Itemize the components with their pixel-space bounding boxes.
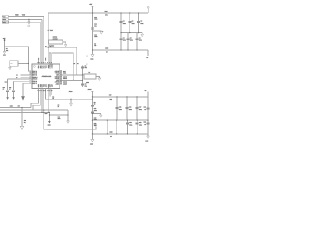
capacitor C2 [128, 21, 131, 22]
svg-text:C3: C3 [140, 21, 142, 23]
svg-text:C14: C14 [94, 34, 97, 36]
svg-text:C22: C22 [94, 123, 97, 125]
svg-text:5V0: 5V0 [110, 99, 113, 101]
ground stub button [9, 66, 11, 67]
svg-text:ADC2: ADC2 [63, 75, 67, 78]
svg-text:GND: GND [105, 48, 108, 50]
svg-text:RXD: RXD [3, 19, 6, 21]
svg-text:AVCC: AVCC [69, 91, 73, 93]
ground arrow drop [20, 126, 24, 129]
svg-text:10u: 10u [94, 25, 96, 27]
capacitor column 1 [120, 13, 122, 33]
capacitor C9 plates [81, 84, 84, 85]
ground arrow below R1 [3, 51, 6, 53]
svg-text:ADC0: ADC0 [63, 81, 67, 84]
junction rail B col d [107, 120, 108, 121]
svg-text:n1: n1 [144, 109, 146, 111]
wire pin 13 long [46, 92, 93, 100]
wire RXD [9, 16, 44, 18]
capacitor column e [116, 120, 118, 134]
ground arrow Cb [12, 97, 15, 100]
net labels right of right pins [63, 70, 67, 86]
svg-text:0V: 0V [106, 52, 108, 54]
ground arrow resonator [64, 45, 67, 47]
svg-text:22p: 22p [85, 85, 87, 87]
ground stub below rail C [147, 134, 149, 136]
junction crystal bottom [82, 80, 83, 81]
svg-text:C6: C6 [139, 37, 141, 39]
junction flag [92, 12, 93, 13]
wire DTR [9, 21, 41, 23]
junction rail C col e [116, 133, 117, 134]
svg-text:Y1: Y1 [88, 71, 90, 74]
ground arrow AVCC column [91, 139, 94, 142]
+5V flag bar [91, 5, 93, 7]
pin names inside top edge (rotated) [37, 64, 53, 68]
capacitor column right edge [147, 97, 149, 134]
ground arrow 3 [21, 96, 25, 100]
wire XTAL2 loop [52, 53, 74, 81]
capacitor C23 plates [147, 108, 150, 109]
svg-text:GND: GND [109, 131, 113, 134]
svg-text:GND: GND [90, 144, 93, 146]
resonator ground lead [63, 42, 66, 44]
junction rail2 C2 [129, 32, 130, 33]
svg-text:GN: GN [94, 125, 96, 127]
resonator Y2 body [49, 40, 63, 44]
svg-text:GND: GND [145, 141, 148, 143]
junction gnd rail C6 [136, 49, 137, 50]
wire pin 14 drop [47, 92, 49, 113]
junction rail A C16 [126, 96, 127, 97]
wire pin 11 to rail [41, 92, 43, 113]
junction rail B C20 [137, 120, 138, 121]
svg-text:100n: 100n [119, 109, 122, 111]
junction ground hang [70, 99, 71, 100]
svg-text:C18: C18 [94, 118, 97, 120]
pin names inside bottom edge (rotated) [37, 83, 53, 88]
junction riser xtal loop [48, 47, 49, 48]
wire AVCC column [91, 91, 93, 139]
svg-text:C20: C20 [139, 122, 142, 124]
junction ferrite stub [92, 113, 93, 114]
junction right edge rail B [147, 120, 148, 121]
wire pin 16 stub [51, 92, 53, 96]
capacitor plates 2 on AVCC column [91, 112, 94, 113]
capacitor C15 [116, 107, 119, 108]
net stub right [147, 50, 149, 56]
capacitor column 3 [138, 13, 140, 33]
junction rail1 C2 [129, 12, 130, 13]
wire bottom rail [44, 127, 96, 130]
svg-text:100n: 100n [139, 124, 142, 126]
svg-text:GND: GND [10, 106, 13, 108]
capacitor C17 [136, 107, 139, 108]
wire pin 10 stair [33, 92, 40, 111]
svg-text:R5: R5 [58, 104, 60, 106]
svg-text:DTR: DTR [3, 22, 6, 24]
connector J1 pin box RXD [3, 19, 9, 21]
capacitor C8 plates [81, 67, 84, 68]
capacitor C1 [120, 21, 123, 22]
IC right pin stubs [60, 70, 63, 72]
wire reset pullup [4, 41, 6, 52]
ground arrow mid [48, 121, 51, 123]
svg-text:+: + [87, 55, 88, 57]
label J1 pin names [3, 16, 6, 24]
IC top pin stubs [37, 61, 39, 64]
ground stub mid [48, 112, 50, 121]
svg-text:100n: 100n [129, 109, 132, 111]
svg-text:100n: 100n [130, 40, 133, 42]
wire XTAL2 under crystal [62, 79, 82, 81]
stub pin15 top [49, 53, 51, 64]
svg-text:GND: GND [3, 55, 6, 57]
left pin numbers [30, 70, 31, 84]
svg-text:VC: VC [146, 57, 148, 59]
net stub up right [147, 92, 149, 97]
IC U1 body [32, 64, 60, 89]
svg-text:PB7 7: PB7 7 [32, 82, 37, 85]
junction rail C C20 [137, 133, 138, 134]
junction pin14 rail3 [48, 112, 49, 113]
svg-text:100n: 100n [129, 124, 132, 126]
svg-text:22p: 22p [85, 67, 87, 69]
ground arrow mid rail [141, 34, 144, 37]
ground arrow at connector [28, 22, 31, 24]
wire pin 12 drop [43, 92, 45, 130]
wire rail C [92, 133, 148, 135]
capacitor plates on AVCC column [91, 106, 94, 107]
svg-text:PD2: PD2 [37, 65, 40, 68]
capacitor column a [116, 97, 118, 120]
svg-text:100n: 100n [140, 23, 143, 25]
svg-text:C12: C12 [94, 24, 97, 26]
svg-text:C19: C19 [129, 122, 132, 124]
capacitor column g [136, 120, 138, 134]
ground arrow x68 [67, 121, 70, 123]
wire rail 5V [0, 109, 68, 111]
junction TXD/GND [28, 19, 29, 20]
svg-text:n1: n1 [144, 124, 146, 126]
svg-text:SCL: SCL [63, 70, 66, 73]
capacitor column c [136, 97, 138, 120]
ground arrow bottom filter [91, 54, 94, 57]
svg-text:C1: C1 [123, 21, 125, 23]
capacitor column 2 [129, 13, 131, 33]
svg-text:GND: GND [45, 113, 48, 115]
junction VCC riser [48, 30, 49, 31]
svg-text:C17: C17 [139, 107, 142, 109]
svg-text:GND: GND [48, 124, 51, 126]
wire bus vertical 3 [39, 22, 41, 64]
svg-text:5V0: 5V0 [105, 14, 108, 16]
svg-text:10: 10 [94, 104, 96, 106]
svg-text:GND: GND [27, 26, 30, 28]
svg-text:GND: GND [47, 64, 50, 68]
capacitor C3 [137, 21, 140, 22]
wire bus vertical 1 [43, 17, 45, 64]
svg-text:100n: 100n [94, 36, 97, 38]
junction ground drop [21, 107, 22, 108]
svg-text:C16: C16 [129, 107, 132, 109]
wire pin3 left [21, 74, 30, 76]
stub pin top 2 [45, 58, 47, 62]
svg-text:C8: C8 [85, 66, 87, 68]
svg-text:16MHz: 16MHz [53, 36, 58, 39]
svg-text:100n: 100n [132, 23, 135, 25]
junction rail1 C1 [120, 12, 121, 13]
svg-text:VC: VC [145, 90, 147, 92]
junction XTAL2 [73, 80, 74, 81]
capacitor column 4 [120, 33, 122, 50]
ground arrow ferrite stub [100, 115, 103, 117]
svg-text:100n: 100n [58, 118, 61, 120]
svg-text:C15: C15 [119, 107, 122, 109]
wire rail 3 [0, 111, 49, 113]
svg-text:100n: 100n [139, 109, 142, 111]
pin number labels bottom [38, 90, 53, 92]
svg-text:TXD: TXD [22, 13, 26, 16]
svg-text:+5V: +5V [17, 106, 19, 108]
capacitor column f [126, 120, 128, 134]
ground arrow right down [147, 136, 150, 138]
svg-text:GN: GN [24, 120, 26, 122]
IC bottom pin stubs [37, 89, 39, 92]
wire crystal to ground [96, 76, 99, 78]
svg-text:X2: X2 [74, 63, 76, 65]
junction rail1 C3 [138, 12, 139, 13]
ferrite stub [92, 114, 100, 116]
junction rail A C15 [116, 96, 117, 97]
svg-text:D1: D1 [24, 122, 26, 124]
IC left pin stubs [30, 70, 33, 72]
svg-text:AVCC: AVCC [88, 88, 93, 91]
pin 1 indicator [34, 66, 36, 68]
junction XTAL1 [76, 74, 77, 75]
capacitor C4 [120, 38, 123, 39]
junction button reset [28, 63, 29, 64]
button SW1 body [10, 61, 18, 67]
connector J1 pin box DTR [3, 21, 9, 23]
pin number labels top [38, 62, 52, 64]
cap drop 1 [7, 79, 9, 97]
junction stub rail3 [49, 112, 50, 113]
svg-text:C24: C24 [143, 122, 146, 124]
IC right pin names [55, 70, 60, 86]
right pin numbers [60, 70, 62, 85]
junction pin11 rail3 [41, 112, 42, 113]
wire pin left 3 [23, 82, 30, 84]
svg-text:C4: C4 [123, 37, 125, 39]
svg-text:GND: GND [37, 83, 40, 87]
junction mid gnd link right [67, 114, 68, 115]
svg-text:TXD: TXD [3, 16, 6, 18]
junction stub pin15 [49, 52, 50, 53]
wire VCC pin left [8, 78, 30, 80]
svg-text:+: + [87, 63, 88, 65]
svg-text:GND: GND [90, 58, 93, 60]
ground stub filter [93, 30, 102, 33]
junction rail A left [92, 96, 93, 97]
wire +5V flag drop [92, 6, 94, 13]
junction rail B left [92, 120, 93, 121]
wire XTAL1 to crystal [62, 74, 84, 76]
svg-text:1 ADC: 1 ADC [47, 83, 50, 88]
gnd drop 3 [22, 83, 24, 96]
wire XTAL1 loop [48, 47, 77, 75]
capacitor C16 [126, 107, 129, 108]
wire button to reset [18, 63, 28, 65]
net labels above top pins (rotated) [38, 58, 47, 61]
svg-text:C23: C23 [143, 107, 146, 109]
svg-text:100n: 100n [139, 40, 142, 42]
wire pin4 left [21, 76, 30, 78]
cap drop 2 [13, 81, 15, 97]
svg-text:100n: 100n [123, 40, 126, 42]
ground arrow hang [70, 103, 73, 106]
svg-text:D+: D+ [16, 75, 18, 77]
wire VCC filter column [92, 13, 94, 54]
IC left pin names [32, 70, 37, 85]
capacitor Cb plates [12, 90, 15, 91]
svg-text:16M: 16M [86, 81, 90, 84]
cap leg vertical [81, 66, 83, 88]
capacitor C20 [136, 123, 139, 124]
junction rail C left [92, 133, 93, 134]
ground arrow filter [100, 32, 103, 34]
svg-text:100n: 100n [94, 110, 97, 112]
junction rail A C17 [136, 96, 137, 97]
connector J1 pin box TXD [3, 16, 9, 18]
svg-text:D-: D- [16, 77, 18, 79]
wire mid rail [121, 32, 142, 34]
gnd drop x68 [67, 110, 69, 121]
capacitor column b [126, 97, 128, 120]
capacitor C5 [127, 38, 130, 39]
junction rail2 C3 [138, 32, 139, 33]
junction rail C C19 [127, 133, 128, 134]
svg-text:+: + [102, 30, 103, 33]
svg-text:VCC: VCC [5, 82, 8, 84]
junction AVCC wire [92, 99, 93, 100]
svg-text:R2: R2 [52, 96, 54, 98]
svg-text:C13: C13 [94, 17, 97, 19]
junction pin12 rail2 [43, 110, 44, 111]
wire bus vertical 2 [41, 19, 43, 64]
capacitor C19 [126, 123, 129, 124]
junction gnd rail C5 [127, 49, 128, 50]
junction gnd rail C4 [120, 49, 121, 50]
junction gnd rail left [92, 49, 93, 50]
svg-text:R6: R6 [94, 102, 96, 104]
power port stub [147, 8, 149, 13]
wire reset to IC [5, 47, 30, 71]
capacitor column d [106, 120, 108, 134]
crystal Y1 body [84, 74, 96, 79]
svg-text:R7: R7 [94, 44, 96, 46]
wire pin 15 stub [49, 92, 51, 97]
capacitor column 6 [136, 33, 138, 50]
svg-text:10k: 10k [6, 50, 8, 52]
ground drop [21, 108, 23, 127]
junction rail2 C1 [120, 32, 121, 33]
svg-text:R1: R1 [6, 48, 8, 50]
stub pin top 1 [37, 58, 39, 62]
ground stub mid rail [141, 33, 143, 35]
svg-text:VCC: VCC [50, 29, 54, 32]
AVCC flag bar [91, 90, 93, 92]
svg-text:C2: C2 [132, 21, 134, 23]
wire GND rail [93, 49, 149, 51]
wire rail B [92, 119, 148, 121]
ground arrow button [9, 67, 12, 69]
capacitor C13 plates [91, 28, 94, 29]
svg-text:100n: 100n [94, 19, 97, 21]
power port circle [147, 6, 149, 8]
junction crystal top [82, 74, 83, 75]
wire rail A [92, 96, 148, 98]
capacitor C24 plates [147, 123, 150, 124]
wire pin 9 stair [31, 92, 39, 108]
junction rail C col d [107, 133, 108, 134]
svg-text:100n: 100n [123, 23, 126, 25]
wire pin left 2 [14, 80, 30, 82]
wire VCC riser [47, 13, 49, 64]
junction rail B C19 [127, 120, 128, 121]
svg-text:1M: 1M [94, 45, 97, 47]
wire VCC rail top [48, 12, 148, 14]
svg-text:+5V: +5V [89, 3, 93, 6]
ground arrow at crystal [98, 78, 101, 80]
svg-text:ATMEGA328: ATMEGA328 [42, 75, 52, 78]
svg-text:SW1: SW1 [10, 63, 13, 65]
junction rail B col e [116, 120, 117, 121]
ground stub on TXD wire [28, 19, 30, 22]
svg-text:C21: C21 [94, 108, 97, 110]
svg-text:C5: C5 [130, 37, 132, 39]
svg-text:C25: C25 [58, 116, 61, 118]
svg-text:+5V: +5V [109, 94, 112, 97]
svg-text:RXD: RXD [15, 13, 19, 16]
svg-text:0V: 0V [110, 136, 112, 138]
svg-text:X1: X1 [77, 63, 79, 65]
ground arrow Ca [6, 97, 9, 100]
wire TXD [9, 18, 43, 20]
junction pin12 rail3 [43, 112, 44, 113]
svg-text:X1: X1 [45, 46, 47, 48]
junction mid gnd link left [49, 114, 50, 115]
capacitor column 5 [127, 33, 129, 50]
capacitor Ca plates [6, 90, 9, 91]
wire rail GND [0, 107, 31, 109]
wire mid gnd link [49, 114, 68, 116]
capacitor C6 [136, 38, 139, 39]
ground hang stub [70, 99, 72, 103]
svg-text:100n: 100n [94, 119, 97, 121]
